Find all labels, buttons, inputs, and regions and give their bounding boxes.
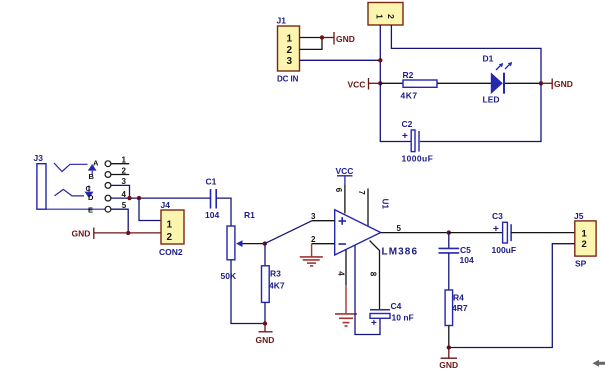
wire C3 to J5: [511, 232, 575, 234]
resistor R4: [445, 290, 468, 348]
wire C2 to GND rail: [420, 83, 541, 141]
svg-text:5: 5: [122, 201, 127, 210]
wire J1 pin3 to VCC node: [300, 59, 381, 61]
earth ground (pin 4): [335, 285, 357, 326]
node bottom ground junction: [447, 345, 451, 349]
wire C1 to R1 top: [216, 198, 231, 226]
svg-text:E: E: [88, 205, 93, 214]
phone jack J3: [34, 153, 111, 214]
power port GND (right): [541, 79, 573, 90]
svg-text:104: 104: [205, 210, 219, 220]
power port GND (bottom left): [256, 324, 275, 346]
svg-text:U1: U1: [381, 199, 390, 210]
svg-text:1000uF: 1000uF: [402, 154, 434, 164]
capacitor C4: [370, 301, 414, 329]
svg-text:GND: GND: [336, 34, 355, 44]
node J1 pin1/pin2 junction: [320, 35, 324, 39]
wire R1 bottom to ground node: [231, 260, 265, 324]
svg-text:2: 2: [386, 14, 396, 19]
wire J3 pin2 stub: [111, 174, 129, 176]
power port GND (bottom): [439, 348, 458, 371]
wire D1 cathode to GND node: [505, 82, 541, 84]
svg-text:C1: C1: [206, 177, 217, 187]
svg-text:DC IN: DC IN: [277, 75, 299, 84]
svg-text:C5: C5: [460, 245, 471, 255]
capacitor C5: [439, 233, 474, 290]
wire op-amp pin3: [312, 220, 335, 222]
svg-text:4K7: 4K7: [401, 90, 418, 100]
wire op-amp pin2: [312, 243, 335, 245]
svg-text:4R7: 4R7: [452, 303, 468, 313]
wire J3 pin4 row to C1: [111, 197, 211, 199]
svg-text:VCC: VCC: [348, 80, 366, 90]
svg-text:8: 8: [368, 272, 377, 277]
connector J5: [574, 211, 596, 269]
svg-text:GND: GND: [439, 360, 458, 370]
node jack pin3/pin4 junction: [127, 196, 131, 200]
svg-text:D: D: [88, 193, 94, 202]
wire VCC node down to C2: [380, 83, 411, 141]
svg-text:4: 4: [336, 271, 345, 276]
resistor R3: [262, 244, 285, 324]
svg-text:2: 2: [287, 45, 293, 56]
svg-text:SP: SP: [575, 259, 587, 269]
wire J1 pin2: [300, 38, 323, 50]
svg-text:2: 2: [167, 232, 173, 243]
svg-text:3: 3: [287, 56, 293, 67]
node SW1/J1 junction: [378, 58, 382, 62]
svg-text:R1: R1: [244, 210, 255, 220]
svg-text:C2: C2: [402, 119, 413, 129]
wire J5 pin2 to ground: [449, 244, 575, 348]
svg-text:R3: R3: [270, 269, 281, 279]
wire op-amp pin1 to C4 bottom: [355, 246, 380, 335]
wire ground row to J4 pin2: [128, 232, 161, 234]
wire SW1 pin2 down/right to GND node: [391, 25, 541, 83]
wire diagonal to op-amp pin3: [265, 221, 312, 244]
svg-text:+: +: [371, 318, 377, 329]
power port VCC (left): [348, 78, 381, 90]
svg-text:+: +: [402, 131, 408, 142]
wire SW1 pin1 down to VCC rail: [379, 25, 381, 83]
connector SW1 (top 2-pin box): [368, 3, 403, 26]
svg-text:+: +: [493, 224, 499, 235]
svg-text:GND: GND: [554, 79, 573, 89]
svg-text:2: 2: [582, 239, 587, 250]
power port GND (jack): [72, 228, 129, 240]
wire R1 wiper to node: [243, 243, 265, 245]
connector J1: [277, 16, 300, 84]
svg-text:C3: C3: [492, 211, 503, 221]
earth ground (pin 2): [300, 244, 323, 266]
LED D1: [483, 54, 513, 105]
svg-text:CON2: CON2: [159, 247, 183, 257]
svg-text:1: 1: [582, 229, 588, 240]
cursor arrow: [593, 360, 605, 367]
wire op-amp pin6: [344, 185, 346, 214]
svg-text:A: A: [93, 159, 99, 168]
power port GND (at J1): [322, 32, 355, 45]
svg-text:J4: J4: [161, 200, 171, 210]
wire output node to C3: [449, 232, 503, 234]
svg-text:GND: GND: [256, 335, 275, 345]
svg-text:10 nF: 10 nF: [392, 313, 414, 323]
node VCC junction: [378, 81, 382, 85]
node pin4/J4 branch junction: [137, 196, 141, 200]
wire J3 pin5 down to ground row: [111, 209, 128, 233]
capacitor C2: [402, 119, 434, 164]
svg-text:B: B: [89, 172, 95, 181]
connector J4: [159, 200, 184, 257]
svg-text:1: 1: [287, 34, 293, 45]
svg-text:J5: J5: [574, 211, 584, 221]
wire op-amp pin7 stub: [367, 189, 369, 227]
node GND rail junction: [539, 81, 543, 85]
svg-text:7: 7: [357, 190, 366, 195]
svg-text:VCC: VCC: [336, 166, 354, 176]
wire op-amp pin5 output: [381, 232, 449, 234]
power port VCC (op-amp): [336, 166, 354, 185]
op-amp U1 LM386: [335, 199, 418, 258]
pin circles: [105, 161, 111, 167]
svg-text:50K: 50K: [221, 271, 237, 281]
svg-text:J3: J3: [34, 153, 44, 163]
svg-text:R2: R2: [403, 70, 414, 80]
capacitor C1: [205, 177, 219, 221]
svg-text:R4: R4: [453, 293, 464, 303]
capacitor C3: [492, 211, 517, 255]
svg-text:2: 2: [311, 235, 316, 244]
svg-text:LM386: LM386: [382, 247, 419, 258]
wire op-amp pin4 down: [345, 250, 347, 285]
svg-text:LED: LED: [483, 95, 500, 105]
svg-text:1: 1: [167, 220, 173, 231]
ring contact: [55, 189, 85, 196]
wire pin4 branch down to J4 pin1: [139, 198, 161, 220]
node wiper junction: [263, 241, 267, 245]
wire J3 pin3 down to pin4 row: [111, 185, 130, 198]
node output junction: [447, 230, 451, 234]
svg-text:D1: D1: [483, 54, 494, 64]
svg-text:3: 3: [311, 212, 316, 221]
resistor R2: [380, 70, 491, 100]
svg-text:J1: J1: [277, 16, 287, 26]
svg-text:6: 6: [334, 188, 343, 193]
svg-text:100uF: 100uF: [492, 245, 517, 255]
svg-text:4K7: 4K7: [269, 281, 285, 291]
wire J3 pin1 stub: [111, 163, 129, 165]
tip contact: [54, 163, 88, 172]
svg-text:GND: GND: [72, 229, 91, 239]
svg-text:C: C: [86, 184, 92, 193]
wire J1 pin1: [300, 37, 323, 39]
wire op-amp pin8 to C4: [370, 241, 380, 310]
svg-text:5: 5: [397, 224, 402, 233]
potentiometer R1: [221, 210, 256, 281]
node R1/R3 ground junction: [263, 321, 267, 325]
svg-text:1: 1: [374, 14, 384, 19]
node ground row junction: [126, 231, 130, 235]
svg-text:C4: C4: [391, 301, 402, 311]
svg-text:104: 104: [460, 255, 474, 265]
